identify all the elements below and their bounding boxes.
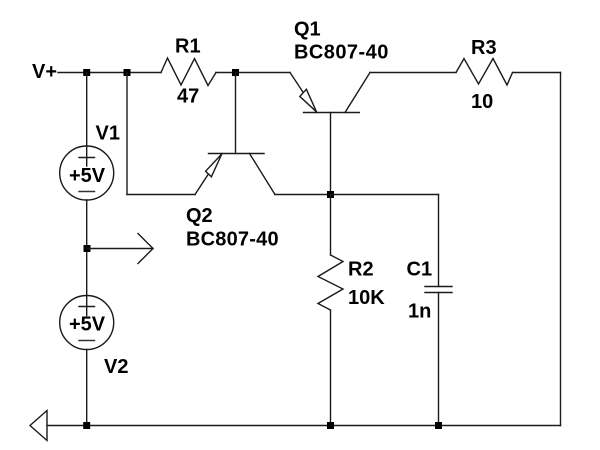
svg-text:Q1: Q1 — [294, 19, 321, 41]
wire top rail middle (R1 to Q1 emitter bend) — [216, 72, 290, 74]
svg-text:C1: C1 — [407, 259, 433, 281]
wire top rail to right edge — [513, 72, 561, 74]
V2 plus sign — [79, 306, 95, 308]
Q1 emitter arrow — [300, 89, 317, 112]
wire Q2 collector to node — [275, 194, 331, 196]
wire V2 bottom to ground rail — [86, 350, 88, 426]
junction current arrow node — [84, 245, 91, 252]
junction ground rail at R2 — [327, 422, 334, 429]
transistor Q1 (PNP) — [290, 73, 370, 195]
svg-text:10: 10 — [471, 91, 493, 113]
junction ground rail at C1 — [435, 422, 442, 429]
junction top rail at V1 — [83, 69, 90, 76]
svg-text:V1: V1 — [96, 123, 120, 145]
junction ground rail at V2 — [83, 422, 90, 429]
V1 minus sign — [79, 191, 95, 193]
svg-text:V+: V+ — [32, 61, 57, 83]
Q1 base wire down to node — [330, 113, 332, 195]
arrow shaft — [87, 248, 153, 250]
V2 minus sign — [79, 340, 95, 342]
junction top rail at x=127 — [124, 69, 131, 76]
wire x=127 vertical down — [126, 73, 128, 195]
wire node to C1 top — [331, 194, 439, 196]
svg-text:+5V: +5V — [69, 314, 106, 336]
svg-text:10K: 10K — [348, 287, 385, 309]
Q2 collector lead — [250, 154, 276, 195]
svg-text:47: 47 — [177, 86, 199, 108]
transistor Q2 (PNP) — [195, 73, 275, 195]
svg-text:+5V: +5V — [69, 165, 106, 187]
svg-text:R2: R2 — [348, 259, 374, 281]
wire top rail left (V+ to R1) — [58, 72, 161, 74]
wire top rail right (Q1 collector to R3) — [370, 72, 456, 74]
Q2 base wire from top rail — [235, 73, 237, 154]
current probe arrow — [87, 234, 153, 264]
Q1 collector lead — [345, 73, 370, 113]
resistor R1 — [161, 58, 216, 86]
wire right vertical (R3 to ground rail) — [560, 73, 562, 426]
wire V1 bottom to V2 top — [86, 200, 88, 316]
wire R2 bottom to ground rail — [330, 310, 332, 426]
svg-text:BC807-40: BC807-40 — [186, 229, 279, 251]
svg-text:V2: V2 — [104, 356, 128, 378]
resistor R2 — [318, 255, 343, 310]
capacitor C1 — [425, 287, 452, 293]
Q1 emitter lead — [290, 73, 317, 113]
V2 circle — [60, 296, 114, 350]
voltage source V1 — [60, 146, 114, 200]
C1 top plate — [425, 286, 452, 288]
resistor R3 — [456, 59, 513, 86]
wire C1 top vertical — [438, 195, 440, 287]
wire to Q2 emitter — [127, 194, 195, 196]
wire C1 bottom to ground rail — [438, 293, 440, 426]
arrow head chevron — [138, 234, 153, 264]
Q1 base bar — [304, 112, 360, 114]
junction node Q1 base / Q2 collector / R2 / C1 — [327, 191, 334, 198]
C1 bottom plate — [425, 292, 452, 294]
svg-text:R3: R3 — [471, 37, 497, 59]
Q2 emitter arrow — [206, 154, 222, 177]
svg-text:R1: R1 — [175, 36, 201, 58]
svg-text:Q2: Q2 — [186, 205, 213, 227]
voltage source V2 — [60, 296, 114, 350]
V1 circle — [60, 146, 114, 200]
wire V+ down into V1 — [86, 73, 88, 167]
wire node down to R2 — [330, 195, 332, 256]
svg-text:1n: 1n — [408, 301, 431, 323]
ground symbol — [30, 411, 47, 441]
svg-text:BC807-40: BC807-40 — [294, 42, 389, 64]
junction top rail at Q2 base — [232, 69, 239, 76]
V1 plus sign — [79, 157, 95, 159]
wire ground rail — [47, 425, 561, 427]
Q2 base bar — [209, 153, 265, 155]
Q2 emitter lead — [195, 154, 222, 195]
